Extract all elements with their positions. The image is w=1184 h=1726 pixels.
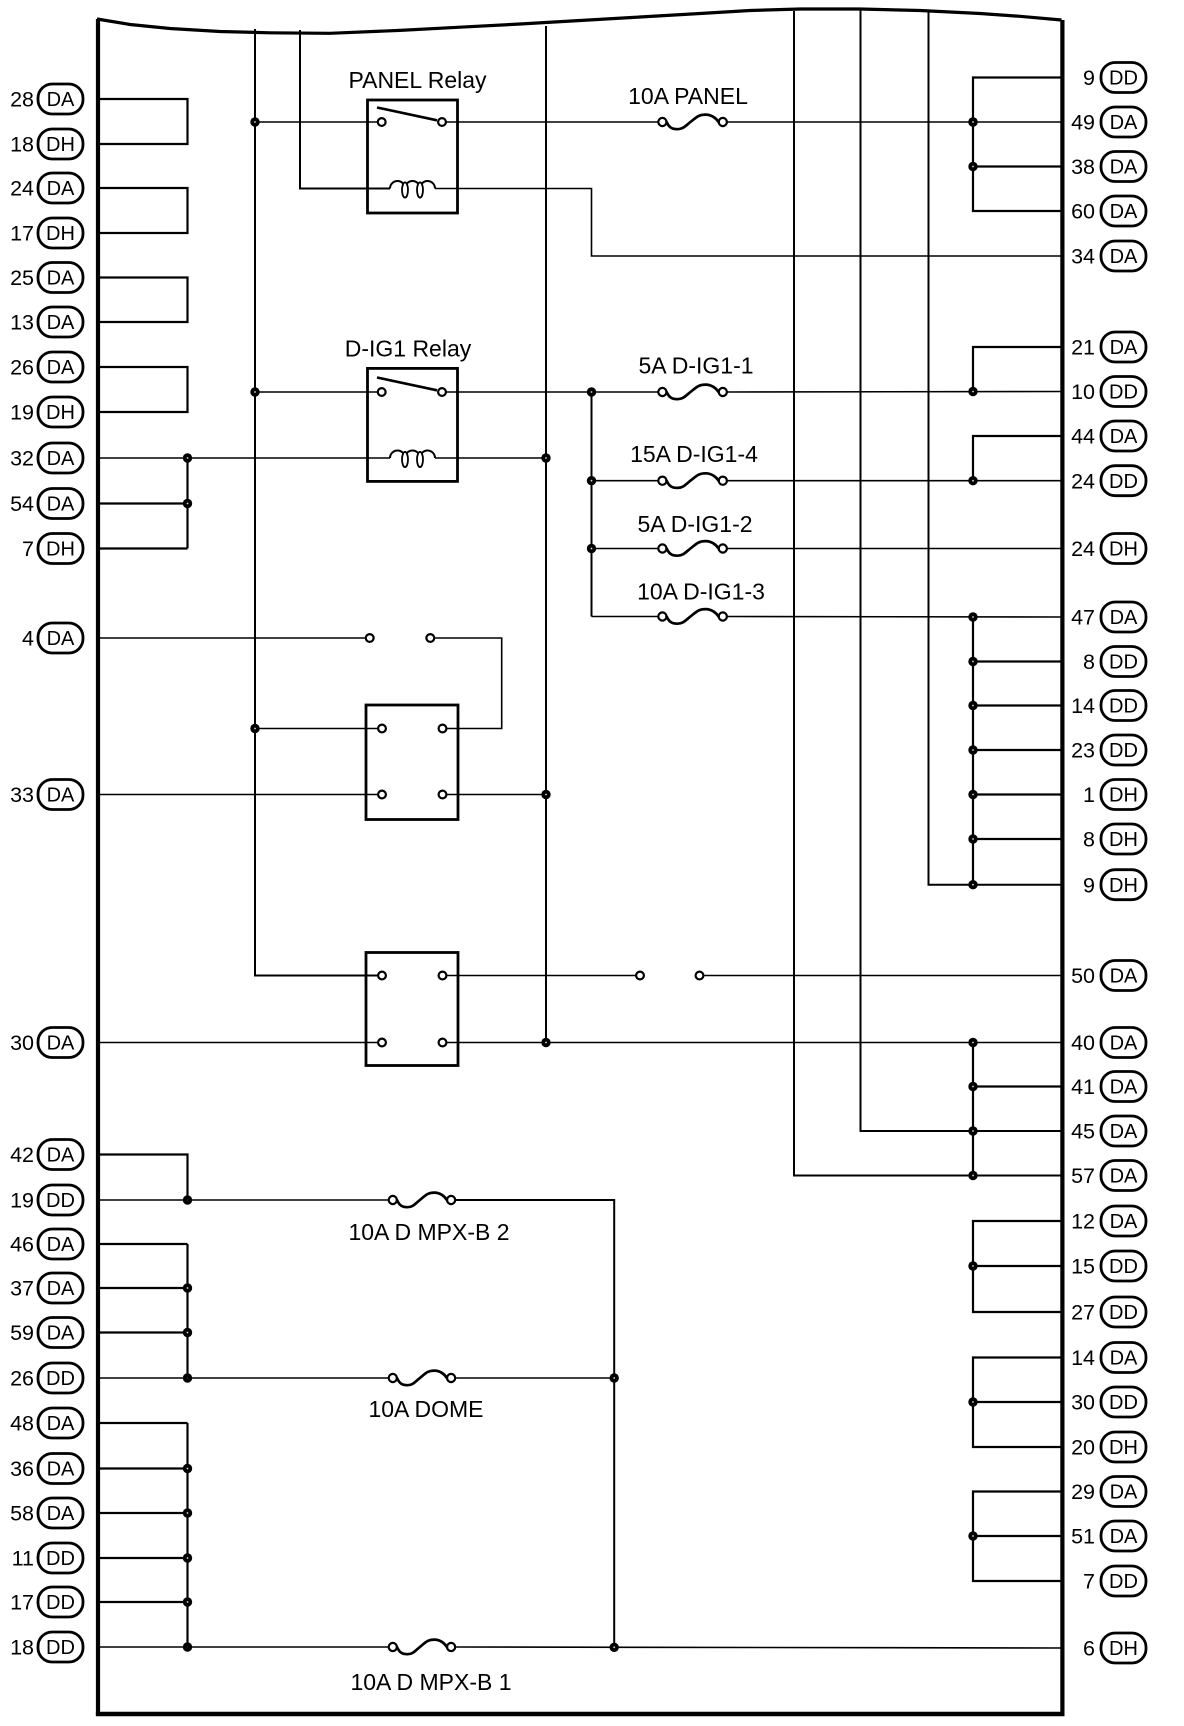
connector pin 7 DD (R) — [1083, 1566, 1146, 1596]
svg-text:DA: DA — [47, 1413, 75, 1435]
svg-text:DA: DA — [47, 1145, 75, 1167]
svg-text:DA: DA — [47, 494, 75, 516]
svg-text:DD: DD — [46, 1190, 75, 1212]
wire pin19DD row to fuse — [98, 1199, 389, 1201]
wire bracket 42DA-19DD — [98, 1155, 188, 1201]
svg-text:40: 40 — [1071, 1031, 1095, 1055]
wire bus B (x=300) to PANEL relay coil — [300, 30, 390, 189]
relay K2 "D-IG1 Relay" label — [345, 336, 472, 362]
junction DOME / bus G — [610, 1373, 619, 1382]
svg-text:46: 46 — [10, 1233, 34, 1257]
connector pin 14 DA (R) — [1071, 1343, 1146, 1373]
svg-text:DH: DH — [46, 134, 75, 156]
svg-text:9: 9 — [1083, 873, 1095, 897]
relay K3 contacts — [378, 725, 446, 799]
svg-text:DD: DD — [46, 1548, 75, 1570]
svg-text:DA: DA — [47, 1323, 75, 1345]
svg-text:D-IG1 Relay: D-IG1 Relay — [345, 336, 472, 362]
svg-text:51: 51 — [1071, 1525, 1095, 1549]
svg-text:45: 45 — [1071, 1120, 1095, 1144]
svg-text:59: 59 — [10, 1321, 34, 1345]
connector pin 54 DA (L) — [10, 489, 83, 519]
connector pin 8 DD (R) — [1083, 647, 1146, 677]
svg-text:DD: DD — [1109, 1392, 1138, 1414]
wire bus A (x=255) from torn edge to relay K4 — [255, 29, 378, 976]
svg-text:DD: DD — [1109, 740, 1138, 762]
svg-text:DH: DH — [1109, 1437, 1138, 1459]
svg-text:4: 4 — [22, 627, 34, 651]
wire bus F (x=928.5) to pin9DH — [929, 11, 1063, 885]
connector pin 20 DH (R) — [1071, 1432, 1146, 1462]
connector pin 13 DA (L) — [10, 307, 83, 337]
svg-text:19: 19 — [10, 401, 34, 425]
svg-text:DA: DA — [1110, 246, 1138, 268]
connector pin 18 DD (L) — [10, 1632, 83, 1662]
svg-text:DA: DA — [47, 1278, 75, 1300]
svg-text:PANEL Relay: PANEL Relay — [348, 67, 487, 93]
wire pin41DA stub — [973, 1085, 1062, 1087]
svg-text:28: 28 — [10, 88, 34, 112]
wire pin11DD stub — [98, 1557, 188, 1559]
fuse F1 5A D-IG1-1 — [638, 353, 753, 400]
connector pin 7 DH (L) — [22, 534, 83, 564]
junction 11DD bracket — [183, 1553, 192, 1562]
connector pin 38 DA (R) — [1071, 152, 1146, 182]
wire bus E (x=860.5) to pin45DA — [861, 10, 1063, 1131]
wire bus D (x=794) to pin57DA — [794, 11, 1062, 1176]
wire bus A to K1 switch — [255, 121, 378, 123]
junction 36DA bracket — [183, 1464, 192, 1473]
junction 49DA bracket — [968, 117, 977, 126]
svg-text:7: 7 — [1083, 1570, 1095, 1594]
junction bus G / pin6DH row — [610, 1643, 619, 1652]
svg-text:17: 17 — [10, 1591, 34, 1615]
junction 8DH bracket — [968, 834, 977, 843]
wire pin48DA stub — [98, 1422, 188, 1424]
wire pin36DA stub — [98, 1467, 188, 1469]
relay K4 (unnamed) box — [366, 953, 458, 1066]
connector pin 30 DD (R) — [1071, 1387, 1146, 1417]
svg-text:DA: DA — [1110, 1348, 1138, 1370]
connector pin 51 DA (R) — [1071, 1521, 1146, 1551]
connector pin 6 DH (R) — [1083, 1633, 1146, 1663]
connector pin 12 DA (R) — [1071, 1206, 1146, 1236]
svg-text:10A PANEL: 10A PANEL — [628, 83, 748, 109]
junction 18DD bracket — [183, 1642, 192, 1651]
wire bracket 47DA-9DH vertical — [972, 617, 974, 885]
svg-text:33: 33 — [10, 783, 34, 807]
fuse F4 10A D-IG1-3 — [637, 579, 765, 624]
junction 8DD bracket — [968, 657, 977, 666]
connector pin 9 DD (R) — [1083, 63, 1146, 93]
junction bus A / K2 switch row — [250, 387, 259, 396]
svg-text:DD: DD — [1109, 1571, 1138, 1593]
wire K3 bottom-right to bus C — [446, 794, 546, 796]
connector pin 23 DD (R) — [1071, 735, 1146, 765]
wire pin15DD stub — [973, 1265, 1062, 1267]
wire pin4 contact to relay K3 top-right — [434, 638, 502, 729]
svg-text:54: 54 — [10, 492, 34, 516]
wire pin46DA stub — [98, 1243, 188, 1245]
svg-text:DA: DA — [47, 178, 75, 200]
junction bus A / K3 row — [250, 724, 259, 733]
svg-text:11: 11 — [12, 1547, 34, 1571]
svg-text:34: 34 — [1071, 245, 1095, 269]
junction 57DA bracket — [968, 1171, 977, 1180]
wire bus A to K2 switch — [255, 391, 378, 393]
wire pin58DA stub — [98, 1512, 188, 1514]
relay K2 switch contacts and blade — [377, 378, 446, 396]
svg-text:15: 15 — [1071, 1255, 1095, 1279]
svg-text:DA: DA — [47, 357, 75, 379]
connector pin 33 DA (L) — [10, 780, 83, 810]
svg-text:DA: DA — [47, 268, 75, 290]
connector pin 24 DD (R) — [1071, 466, 1146, 496]
svg-text:DD: DD — [1109, 1256, 1138, 1278]
wire pin37DA stub — [98, 1287, 188, 1289]
connector pin 11 DD (L) — [12, 1543, 83, 1573]
svg-text:41: 41 — [1071, 1075, 1095, 1099]
svg-text:DD: DD — [1109, 382, 1138, 404]
svg-text:DA: DA — [1110, 1482, 1138, 1504]
wire pin51DA stub — [973, 1535, 1062, 1537]
wire pin26DD row to fuse — [98, 1377, 389, 1379]
connector pin 58 DA (L) — [10, 1498, 83, 1528]
svg-text:44: 44 — [1071, 425, 1095, 449]
wire bracket 48DA-18DD vertical — [186, 1423, 188, 1647]
svg-text:9: 9 — [1083, 66, 1095, 90]
svg-text:7: 7 — [22, 537, 34, 561]
junction 40DA bracket — [968, 1038, 977, 1047]
wire K1 switch to fuse 10A PANEL — [446, 121, 658, 123]
svg-text:DA: DA — [1110, 1166, 1138, 1188]
svg-text:DA: DA — [47, 1234, 75, 1256]
junction 58DA bracket — [183, 1508, 192, 1517]
connector pin 18 DH (L) — [10, 129, 83, 159]
connector pin 28 DA (L) — [10, 84, 83, 114]
svg-text:DH: DH — [1109, 875, 1138, 897]
connector pin 24 DA (L) — [10, 173, 83, 203]
fuse F7 10A D MPX-B 1 — [350, 1640, 511, 1695]
svg-text:26: 26 — [10, 356, 34, 380]
svg-text:57: 57 — [1071, 1164, 1095, 1188]
connector pin 10 DD (R) — [1071, 377, 1146, 407]
wire bracket 40DA-57DA vertical — [972, 1043, 974, 1176]
junction block border (left side) — [96, 19, 100, 1716]
wire K2 coil to bus C — [435, 457, 546, 459]
connector pin 21 DA (R) — [1071, 332, 1146, 362]
svg-text:1: 1 — [1083, 783, 1095, 807]
junction 9DH bracket — [968, 880, 977, 889]
wire bracket 14DA-20DH — [973, 1358, 1062, 1448]
junction bus C end / pin30-40 row — [541, 1038, 550, 1047]
wire bracket 44DA-24DD — [973, 436, 1062, 481]
relay K2 D-IG1 Relay box — [368, 368, 458, 481]
connector pin 24 DH (R) — [1071, 534, 1146, 564]
svg-text:12: 12 — [1071, 1210, 1095, 1234]
wire pin30DA to K4 bottom-left — [98, 1042, 378, 1044]
connector pin 26 DD (L) — [10, 1363, 83, 1393]
junction 51DA bracket — [968, 1531, 977, 1540]
connector pin 44 DA (R) — [1071, 421, 1146, 451]
svg-text:13: 13 — [10, 311, 34, 335]
svg-text:42: 42 — [10, 1143, 34, 1167]
svg-text:DA: DA — [47, 448, 75, 470]
junction 32/54 bracket — [183, 453, 192, 462]
svg-text:17: 17 — [10, 222, 34, 246]
wire fuse D MPX-B 2 output to bus G — [455, 1200, 614, 1648]
svg-text:30: 30 — [10, 1031, 34, 1055]
connector pin 19 DH (L) — [10, 397, 83, 427]
wire bridge pin24DA-pin17DH — [98, 188, 188, 233]
connector pin 17 DD (L) — [10, 1587, 83, 1617]
fuse 10A PANEL — [628, 83, 748, 129]
junction bus A / K1 switch row — [250, 117, 259, 126]
junction 23DD bracket — [968, 745, 977, 754]
wire bus A to K3 top-left — [255, 728, 378, 730]
wire fuse 10A PANEL to pin49DA — [727, 121, 1063, 123]
fuse F3 5A D-IG1-2 — [637, 511, 752, 556]
wire bridge pin26DA-pin19DH — [98, 367, 188, 412]
junction 45DA bracket — [968, 1126, 977, 1135]
wire bracket 32-54-7 vertical — [186, 458, 188, 549]
svg-text:8: 8 — [1083, 828, 1095, 852]
wire pin7DH stub — [98, 547, 188, 549]
svg-text:23: 23 — [1071, 739, 1095, 763]
svg-text:19: 19 — [10, 1189, 34, 1213]
svg-text:DA: DA — [47, 628, 75, 650]
wire fuse feed vertical (x=591.5) — [591, 392, 593, 617]
relay K1 switch contacts and blade — [377, 108, 446, 126]
svg-text:25: 25 — [10, 266, 34, 290]
svg-text:DA: DA — [1110, 966, 1138, 988]
svg-text:14: 14 — [1071, 1346, 1095, 1370]
wire open contact to pin50DA — [703, 975, 1062, 977]
svg-text:DH: DH — [1109, 1638, 1138, 1660]
svg-text:DA: DA — [47, 1459, 75, 1481]
wire K4 top-right to open contact — [446, 975, 636, 977]
junction 59DA bracket — [183, 1328, 192, 1337]
wire bridge pin25DA-pin13DA — [98, 278, 188, 323]
junction 14DD bracket — [968, 701, 977, 710]
svg-text:6: 6 — [1083, 1637, 1095, 1661]
wire K1 coil to pin34DA (via step down) — [435, 189, 1062, 257]
relay K1 PANEL Relay box — [368, 100, 458, 213]
connector pin 47 DA (R) — [1071, 602, 1146, 632]
junction 54 stub — [183, 499, 192, 508]
svg-text:5A D-IG1-2: 5A D-IG1-2 — [637, 511, 752, 537]
junction 38DA bracket — [968, 162, 977, 171]
junction 15DD bracket — [968, 1261, 977, 1270]
svg-text:21: 21 — [1071, 336, 1095, 360]
fuse F2 15A D-IG1-4 — [630, 441, 758, 488]
junction 41DA bracket — [968, 1082, 977, 1091]
wire feed to fuse 15A D-IG1-4 — [592, 480, 659, 482]
svg-text:50: 50 — [1071, 964, 1095, 988]
connector pin 17 DH (L) — [10, 218, 83, 248]
wire pin4DA to contact — [98, 637, 366, 639]
wire pin59DA stub — [98, 1331, 188, 1333]
svg-text:DH: DH — [46, 223, 75, 245]
svg-text:DD: DD — [1109, 68, 1138, 90]
wire pin17DD stub — [98, 1601, 188, 1603]
connector pin 27 DD (R) — [1071, 1297, 1146, 1327]
svg-text:10A DOME: 10A DOME — [368, 1396, 483, 1422]
junction 10DD bracket — [968, 387, 977, 396]
wire K2 switch to fuse 5A D-IG1-1 — [446, 391, 658, 393]
junction K3 / bus C — [541, 790, 550, 799]
svg-text:DA: DA — [47, 1503, 75, 1525]
wire fuse 5A D-IG1-1 to pin10DD — [727, 391, 1063, 394]
junction 24DD bracket — [968, 476, 977, 485]
connector pin 29 DA (R) — [1071, 1477, 1146, 1507]
svg-text:DA: DA — [1110, 157, 1138, 179]
svg-text:24: 24 — [1071, 537, 1095, 561]
svg-text:15A D-IG1-4: 15A D-IG1-4 — [630, 441, 758, 467]
svg-text:10: 10 — [1071, 380, 1095, 404]
svg-text:DH: DH — [1109, 829, 1138, 851]
svg-text:DA: DA — [1110, 607, 1138, 629]
svg-text:DA: DA — [47, 785, 75, 807]
svg-text:24: 24 — [10, 177, 34, 201]
svg-text:30: 30 — [1071, 1391, 1095, 1415]
wire pin14DD stub — [973, 704, 1062, 706]
wire fuse 5A D-IG1-2 to pin24DH — [727, 548, 1063, 550]
connector pin 60 DA (R) — [1071, 196, 1146, 226]
svg-text:DH: DH — [1109, 785, 1138, 807]
connector pin 8 DH (R) — [1083, 824, 1146, 854]
junction feed/D-IG1-4 — [587, 476, 596, 485]
junction 19DD bracket — [183, 1195, 192, 1204]
relay K1 "PANEL Relay" label — [348, 67, 487, 93]
svg-text:DA: DA — [47, 312, 75, 334]
svg-text:37: 37 — [10, 1277, 34, 1301]
wire fuse D MPX-B 1 output to pin6DH — [455, 1647, 1062, 1648]
svg-text:14: 14 — [1071, 694, 1095, 718]
svg-text:60: 60 — [1071, 200, 1095, 224]
svg-text:DA: DA — [47, 1033, 75, 1055]
connector pin 50 DA (R) — [1071, 961, 1146, 991]
svg-text:DA: DA — [1110, 1526, 1138, 1548]
wire bridge pin28DA-pin18DH — [98, 99, 188, 144]
svg-text:DA: DA — [1110, 1211, 1138, 1233]
svg-text:DD: DD — [46, 1637, 75, 1659]
contact pair on pin4 wire — [366, 634, 434, 642]
svg-text:5A D-IG1-1: 5A D-IG1-1 — [638, 353, 753, 379]
wire fuse 15A D-IG1-4 to pin24DD — [727, 480, 1063, 482]
svg-text:DA: DA — [1110, 426, 1138, 448]
wire pin30DD stub — [973, 1401, 1062, 1403]
junction block border (bottom) — [96, 1712, 1065, 1716]
connector pin 40 DA (R) — [1071, 1028, 1146, 1058]
wire bracket 29DA-7DD — [973, 1492, 1062, 1582]
svg-text:49: 49 — [1071, 111, 1095, 135]
wire fuse 10A D-IG1-3 to pin47DA — [727, 616, 1063, 619]
connector pin 19 DD (L) — [10, 1185, 83, 1215]
svg-text:10A D MPX-B 2: 10A D MPX-B 2 — [348, 1219, 509, 1245]
connector pin 46 DA (L) — [10, 1229, 83, 1259]
wire feed to fuse 10A D-IG1-3 — [592, 616, 659, 618]
svg-text:DA: DA — [1110, 1033, 1138, 1055]
svg-text:20: 20 — [1071, 1436, 1095, 1460]
svg-text:8: 8 — [1083, 650, 1095, 674]
connector pin 34 DA (R) — [1071, 241, 1146, 271]
svg-text:DD: DD — [1109, 1302, 1138, 1324]
wire pin18DD row to fuse — [98, 1646, 389, 1648]
wire feed to fuse 5A D-IG1-2 — [592, 548, 659, 550]
svg-text:10A D-IG1-3: 10A D-IG1-3 — [637, 579, 765, 605]
connector pin 37 DA (L) — [10, 1273, 83, 1303]
junction 17DD bracket — [183, 1597, 192, 1606]
wire pin1DH stub — [973, 793, 1062, 795]
connector pin 42 DA (L) — [10, 1140, 83, 1170]
connector pin 26 DA (L) — [10, 352, 83, 382]
junction 30DD bracket — [968, 1397, 977, 1406]
svg-text:10A D MPX-B 1: 10A D MPX-B 1 — [350, 1669, 511, 1695]
svg-text:DA: DA — [1110, 201, 1138, 223]
svg-text:32: 32 — [10, 447, 34, 471]
junction 49DA row / bracket — [968, 117, 977, 126]
connector pin 36 DA (L) — [10, 1454, 83, 1484]
svg-text:DH: DH — [1109, 539, 1138, 561]
svg-text:18: 18 — [10, 1636, 34, 1660]
svg-text:36: 36 — [10, 1457, 34, 1481]
connector pin 57 DA (R) — [1071, 1161, 1146, 1191]
svg-text:DD: DD — [1109, 652, 1138, 674]
relay K4 contacts — [378, 972, 446, 1047]
wire pin32DA row to D-IG1 relay coil — [98, 457, 390, 459]
contact pair on pin50 wire — [636, 972, 703, 980]
junction 37DA bracket — [183, 1283, 192, 1292]
svg-text:DH: DH — [46, 539, 75, 561]
svg-text:DA: DA — [47, 89, 75, 111]
junction fuse feed top — [587, 387, 596, 396]
wire pin8DD stub — [973, 660, 1062, 662]
wire bracket 9DD-60DA — [973, 78, 1062, 212]
junction block border (top, torn/wavy edge) — [97, 9, 1062, 33]
svg-text:18: 18 — [10, 133, 34, 157]
svg-text:38: 38 — [1071, 155, 1095, 179]
wire bus C (x=546) to pin40 row — [545, 26, 547, 1043]
connector pin 30 DA (L) — [10, 1028, 83, 1058]
svg-text:47: 47 — [1071, 606, 1095, 630]
connector pin 59 DA (L) — [10, 1318, 83, 1348]
connector pin 1 DH (R) — [1083, 780, 1146, 810]
junction block border (right side) — [1060, 20, 1064, 1716]
junction 47DA bracket — [968, 612, 977, 621]
connector pin 25 DA (L) — [10, 263, 83, 293]
svg-text:DD: DD — [46, 1592, 75, 1614]
fuse F6 10A DOME — [368, 1371, 483, 1422]
wire bracket 21DA-10DD — [973, 347, 1062, 392]
connector pin 48 DA (L) — [10, 1408, 83, 1438]
svg-text:DA: DA — [1110, 1077, 1138, 1099]
connector pin 4 DA (L) — [22, 623, 83, 653]
svg-text:DD: DD — [1109, 696, 1138, 718]
junction 26DD bracket — [183, 1373, 192, 1382]
wire fuse DOME output to bus G — [455, 1377, 614, 1379]
connector pin 14 DD (R) — [1071, 691, 1146, 721]
svg-text:DH: DH — [46, 402, 75, 424]
wire bracket 46DA-26DD vertical — [186, 1244, 188, 1378]
svg-text:DD: DD — [46, 1368, 75, 1390]
connector pin 9 DH (R) — [1083, 870, 1146, 900]
wire pin8DH stub — [973, 838, 1062, 840]
svg-text:26: 26 — [10, 1367, 34, 1391]
svg-text:24: 24 — [1071, 469, 1095, 493]
fuse F5 10A D MPX-B 2 — [348, 1193, 509, 1245]
junction feed/D-IG1-2 — [587, 544, 596, 553]
